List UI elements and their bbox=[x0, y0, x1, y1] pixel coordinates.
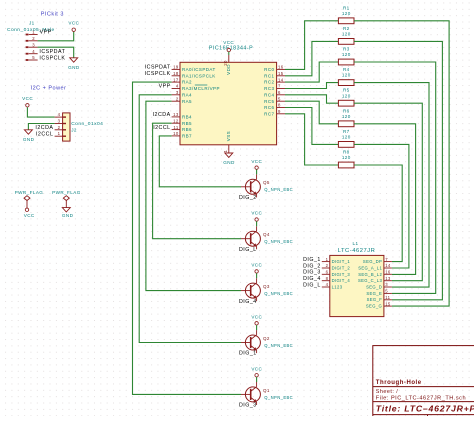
svg-text:Title: LTC–4627JR+PIC: Title: LTC–4627JR+PIC bbox=[376, 403, 474, 413]
svg-text:1: 1 bbox=[326, 257, 329, 262]
svg-text:SEG_A_L1: SEG_A_L1 bbox=[358, 266, 382, 271]
svg-text:Through-Hole: Through-Hole bbox=[376, 380, 422, 386]
svg-text:Sheet: /: Sheet: / bbox=[376, 389, 398, 395]
svg-text:Q_NPN_EBC: Q_NPN_EBC bbox=[264, 187, 293, 192]
svg-text:PWR_FLAG: PWR_FLAG bbox=[15, 190, 44, 195]
transistor Q5 Q_NPN_EBC bbox=[241, 174, 260, 197]
svg-text:120: 120 bbox=[342, 93, 351, 98]
svg-text:11: 11 bbox=[173, 125, 178, 130]
svg-text:R7: R7 bbox=[343, 129, 350, 134]
wire RC3 to R4 bbox=[285, 83, 338, 89]
svg-text:R4: R4 bbox=[343, 67, 350, 72]
svg-text:120: 120 bbox=[342, 52, 351, 57]
svg-text:DIG_L: DIG_L bbox=[303, 282, 321, 288]
wire VCC to Q1 collector bbox=[256, 377, 258, 382]
connector J1 Conn_01x05_Male bbox=[26, 30, 38, 61]
svg-text:4: 4 bbox=[326, 282, 329, 287]
svg-text:DIG_1: DIG_1 bbox=[303, 257, 321, 263]
svg-text:Q2: Q2 bbox=[263, 336, 270, 341]
svg-text:RA4: RA4 bbox=[182, 92, 192, 97]
wire J2 pin3 to GND bbox=[28, 124, 54, 130]
wire R3 to SEG_E bbox=[354, 62, 436, 293]
title block frame bbox=[373, 346, 474, 421]
svg-text:PIC16F18344-P: PIC16F18344-P bbox=[209, 46, 253, 52]
svg-text:5: 5 bbox=[278, 96, 281, 101]
svg-text:VCC: VCC bbox=[251, 159, 262, 164]
svg-text:RA5: RA5 bbox=[182, 99, 192, 104]
svg-text:RA0/ICSPDAT: RA0/ICSPDAT bbox=[182, 67, 216, 72]
svg-text:RC7: RC7 bbox=[264, 111, 274, 116]
svg-text:RB4: RB4 bbox=[182, 115, 192, 120]
svg-text:DIG_L: DIG_L bbox=[239, 247, 257, 253]
svg-text:2: 2 bbox=[32, 36, 35, 41]
wire VCC to Q4 collector bbox=[256, 221, 258, 226]
ground GND (J2) bbox=[24, 130, 32, 134]
resistor R4 bbox=[338, 80, 354, 86]
svg-text:3: 3 bbox=[32, 42, 35, 47]
svg-text:RC3: RC3 bbox=[264, 86, 274, 91]
svg-text:11: 11 bbox=[385, 295, 390, 300]
svg-text:R8: R8 bbox=[343, 150, 350, 155]
wire RC6 to R7 bbox=[285, 108, 338, 145]
wire VCC to Q3 collector bbox=[256, 273, 258, 278]
wire RA5 to Q3 base bbox=[146, 101, 241, 290]
svg-text:RA3/MCLR/VPP: RA3/MCLR/VPP bbox=[182, 86, 220, 91]
svg-text:R5: R5 bbox=[343, 88, 350, 93]
svg-text:ICSPCLK: ICSPCLK bbox=[39, 55, 65, 61]
wire RC4 to R5 bbox=[285, 95, 338, 103]
svg-text:16: 16 bbox=[278, 65, 284, 70]
L1 right pins SEG_DP..SEG_G bbox=[358, 257, 392, 309]
svg-text:10: 10 bbox=[173, 131, 179, 136]
U1 pin 1 VSS bbox=[228, 145, 230, 151]
svg-text:120: 120 bbox=[342, 73, 351, 78]
svg-text:4: 4 bbox=[58, 112, 61, 117]
svg-text:RC6: RC6 bbox=[264, 105, 274, 110]
svg-text:RB5: RB5 bbox=[182, 121, 192, 126]
svg-text:6: 6 bbox=[326, 270, 329, 275]
svg-text:7: 7 bbox=[385, 257, 388, 262]
svg-text:13: 13 bbox=[385, 276, 391, 281]
svg-text:2: 2 bbox=[176, 96, 179, 101]
resistor R1 bbox=[338, 18, 354, 24]
power symbol VCC (J2) bbox=[26, 104, 29, 107]
svg-text:DIGIT_1: DIGIT_1 bbox=[332, 259, 351, 264]
U1 right pins RC0-RC7 with numbers bbox=[264, 65, 285, 117]
svg-text:GND: GND bbox=[62, 213, 74, 218]
svg-text:File: PIC_LTC-4627JR_TH.sch: File: PIC_LTC-4627JR_TH.sch bbox=[376, 396, 466, 402]
svg-text:SEG_B_L2: SEG_B_L2 bbox=[358, 272, 382, 277]
svg-text:VSS: VSS bbox=[226, 131, 231, 141]
svg-text:DIGIT_3: DIGIT_3 bbox=[332, 272, 351, 277]
wire R4 to SEG_D bbox=[354, 83, 429, 288]
svg-text:9: 9 bbox=[278, 109, 281, 114]
resistor R3 bbox=[338, 59, 354, 65]
ground GND (J1) bbox=[70, 58, 78, 62]
svg-text:DIG_3: DIG_3 bbox=[303, 270, 321, 276]
svg-text:SEG_D: SEG_D bbox=[366, 285, 382, 290]
svg-text:Q4: Q4 bbox=[263, 232, 270, 237]
wire R6 to SEG_B_L2 bbox=[354, 124, 416, 275]
svg-text:12: 12 bbox=[173, 119, 179, 124]
svg-text:2: 2 bbox=[58, 125, 61, 130]
wire RC1 to R2 bbox=[285, 41, 338, 75]
wire VCC to Q2 collector bbox=[256, 325, 258, 330]
wire RC2 to R3 bbox=[285, 62, 338, 82]
svg-text:SEG_F: SEG_F bbox=[367, 297, 383, 302]
svg-text:VCC: VCC bbox=[251, 263, 262, 268]
svg-text:Q_NPN_EBC: Q_NPN_EBC bbox=[264, 343, 293, 348]
svg-text:7: 7 bbox=[278, 84, 281, 89]
svg-text:8: 8 bbox=[278, 103, 281, 108]
svg-text:RB7: RB7 bbox=[182, 134, 192, 139]
svg-text:VCC: VCC bbox=[251, 315, 262, 320]
U1 pin 20 VDD bbox=[228, 55, 230, 62]
transistor Q3 Q_NPN_EBC bbox=[241, 278, 260, 301]
resistor R7 bbox=[338, 142, 354, 148]
svg-text:Q_NPN_EBC: Q_NPN_EBC bbox=[264, 239, 293, 244]
transistor Q2 Q_NPN_EBC bbox=[241, 330, 260, 353]
svg-text:Q3: Q3 bbox=[263, 284, 270, 289]
svg-text:VCC: VCC bbox=[24, 213, 35, 218]
svg-text:I2CDA: I2CDA bbox=[153, 112, 171, 118]
wire J1 pin3 to GND bbox=[38, 47, 74, 58]
svg-text:GND: GND bbox=[223, 160, 235, 165]
svg-text:RC1: RC1 bbox=[264, 73, 274, 78]
svg-text:120: 120 bbox=[342, 135, 351, 140]
svg-text:4: 4 bbox=[176, 84, 179, 89]
svg-text:DIG_4: DIG_4 bbox=[239, 299, 257, 305]
svg-text:RA1/ICSPCLK: RA1/ICSPCLK bbox=[182, 73, 216, 78]
wire VCC to Q5 collector bbox=[256, 169, 258, 174]
wire RC0 to R1 bbox=[285, 21, 338, 70]
resistor R8 bbox=[338, 162, 354, 168]
display L1 LTC-4627JR bbox=[330, 255, 384, 316]
svg-text:ICSPDAT: ICSPDAT bbox=[39, 49, 65, 55]
svg-text:L123: L123 bbox=[332, 285, 343, 290]
svg-text:SEG_DP: SEG_DP bbox=[363, 259, 382, 264]
svg-text:I2CDA: I2CDA bbox=[35, 125, 53, 131]
svg-text:5: 5 bbox=[385, 289, 388, 294]
svg-text:VCC: VCC bbox=[251, 366, 262, 371]
svg-text:RA2: RA2 bbox=[182, 80, 192, 85]
svg-text:14: 14 bbox=[278, 77, 284, 82]
svg-text:Q1: Q1 bbox=[263, 388, 270, 393]
wire R8 to SEG_DP bbox=[354, 165, 402, 262]
svg-text:SEG_E: SEG_E bbox=[366, 291, 382, 296]
svg-text:GND: GND bbox=[68, 65, 80, 70]
svg-text:DIG_2: DIG_2 bbox=[239, 195, 257, 201]
svg-text:Q_NPN_EBC: Q_NPN_EBC bbox=[264, 291, 293, 296]
connector J2 Conn_01x04 bbox=[55, 112, 70, 141]
svg-text:DIG_3: DIG_3 bbox=[239, 403, 257, 409]
resistor R2 bbox=[338, 39, 354, 45]
svg-text:SEG_G: SEG_G bbox=[366, 304, 382, 309]
svg-text:VCC: VCC bbox=[68, 20, 79, 25]
svg-text:DIGIT_2: DIGIT_2 bbox=[332, 266, 351, 271]
transistor Q1 Q_NPN_EBC bbox=[241, 382, 260, 405]
svg-text:L1: L1 bbox=[353, 241, 359, 246]
resistor R5 bbox=[338, 100, 354, 106]
svg-text:17: 17 bbox=[173, 77, 179, 82]
svg-text:VPP: VPP bbox=[159, 84, 171, 90]
U1 left pins RA0-RA5 RB4-RB7 with numbers bbox=[172, 65, 220, 139]
wire R1 to SEG_G bbox=[354, 21, 449, 306]
svg-text:J1: J1 bbox=[29, 20, 35, 25]
wire RA2 to Q1 base bbox=[133, 82, 242, 394]
svg-text:13: 13 bbox=[173, 112, 179, 117]
wire VCC to J2 pin4 bbox=[27, 107, 54, 117]
resistor R6 bbox=[338, 121, 354, 127]
power symbol VCC (J1) bbox=[72, 28, 75, 31]
svg-text:15: 15 bbox=[385, 301, 391, 306]
svg-text:RC2: RC2 bbox=[264, 80, 274, 85]
wire RA4 to Q2 base bbox=[139, 95, 241, 343]
svg-text:VCC: VCC bbox=[223, 40, 234, 45]
svg-text:Q_NPN_EBC: Q_NPN_EBC bbox=[264, 395, 293, 400]
svg-text:PICkit 3: PICkit 3 bbox=[41, 12, 64, 18]
wire R2 to SEG_F bbox=[354, 41, 442, 299]
svg-text:GND: GND bbox=[23, 137, 35, 142]
svg-text:DIG_4: DIG_4 bbox=[303, 276, 321, 282]
svg-text:R1: R1 bbox=[343, 5, 350, 10]
svg-text:RC0: RC0 bbox=[264, 67, 274, 72]
svg-text:I2CCL: I2CCL bbox=[36, 132, 53, 138]
svg-text:I2C + Power: I2C + Power bbox=[31, 85, 67, 91]
svg-text:ICSPCLK: ICSPCLK bbox=[145, 71, 171, 77]
svg-text:Q5: Q5 bbox=[263, 180, 270, 185]
svg-text:DIG_2: DIG_2 bbox=[303, 263, 321, 269]
svg-text:RB6: RB6 bbox=[182, 127, 192, 132]
svg-text:VPP: VPP bbox=[40, 29, 52, 35]
svg-text:120: 120 bbox=[342, 114, 351, 119]
wire RB5 to Q4 base bbox=[153, 123, 241, 239]
svg-text:2: 2 bbox=[326, 263, 329, 268]
svg-text:SEG_C_L3: SEG_C_L3 bbox=[358, 278, 382, 283]
svg-text:16: 16 bbox=[385, 270, 391, 275]
svg-text:Conn_01x04: Conn_01x04 bbox=[71, 121, 103, 127]
svg-text:3: 3 bbox=[176, 90, 179, 95]
svg-text:3: 3 bbox=[385, 282, 388, 287]
svg-text:1: 1 bbox=[223, 150, 228, 153]
svg-text:6: 6 bbox=[278, 90, 281, 95]
transistor Q4 Q_NPN_EBC bbox=[241, 226, 260, 249]
svg-text:LTC-4627JR: LTC-4627JR bbox=[338, 248, 376, 254]
svg-text:8: 8 bbox=[326, 276, 329, 281]
L1 left pins DIGIT_1-4 L123 bbox=[322, 257, 351, 290]
svg-text:R2: R2 bbox=[343, 26, 350, 31]
svg-text:15: 15 bbox=[278, 71, 284, 76]
svg-text:120: 120 bbox=[342, 155, 351, 160]
svg-text:19: 19 bbox=[173, 65, 179, 70]
svg-text:DIG_1: DIG_1 bbox=[239, 351, 257, 357]
svg-text:120: 120 bbox=[342, 32, 351, 37]
svg-text:18: 18 bbox=[173, 71, 179, 76]
svg-text:120: 120 bbox=[342, 11, 351, 16]
svg-text:RC4: RC4 bbox=[264, 92, 274, 97]
wire J1 pin2 to VCC bbox=[38, 32, 74, 41]
svg-text:R6: R6 bbox=[343, 108, 350, 113]
ground GND (PWR_FLAG 2) bbox=[62, 208, 70, 212]
wire RC7 to R8 bbox=[285, 114, 338, 165]
svg-text:R3: R3 bbox=[343, 47, 350, 52]
svg-text:VDD: VDD bbox=[226, 64, 231, 75]
wire VCC to U1 VDD pin bbox=[228, 52, 230, 55]
svg-text:I2CCL: I2CCL bbox=[153, 125, 170, 131]
wire RB7 to Q5 base bbox=[159, 136, 241, 187]
svg-text:ICSPDAT: ICSPDAT bbox=[145, 65, 171, 71]
svg-text:PWR_FLAG: PWR_FLAG bbox=[52, 190, 81, 195]
svg-text:DIGIT_4: DIGIT_4 bbox=[332, 278, 351, 283]
svg-text:RC5: RC5 bbox=[264, 99, 274, 104]
svg-text:VCC: VCC bbox=[251, 211, 262, 216]
svg-text:VCC: VCC bbox=[22, 96, 33, 101]
svg-text:1: 1 bbox=[58, 131, 61, 136]
wire RC5 to R6 bbox=[285, 101, 338, 124]
svg-text:14: 14 bbox=[385, 263, 391, 268]
power symbol VCC (PWR_FLAG 1) bbox=[25, 208, 28, 211]
svg-text:J2: J2 bbox=[71, 127, 77, 132]
svg-text:3: 3 bbox=[58, 119, 61, 124]
ground GND (U1 VSS) bbox=[228, 151, 230, 153]
wire R7 to SEG_A_L1 bbox=[354, 144, 409, 268]
svg-text:4: 4 bbox=[32, 49, 35, 54]
microcontroller U1 PIC16F18344-P bbox=[180, 62, 277, 145]
wire R5 to SEG_C_L3 bbox=[354, 103, 422, 281]
svg-text:5: 5 bbox=[32, 55, 35, 60]
